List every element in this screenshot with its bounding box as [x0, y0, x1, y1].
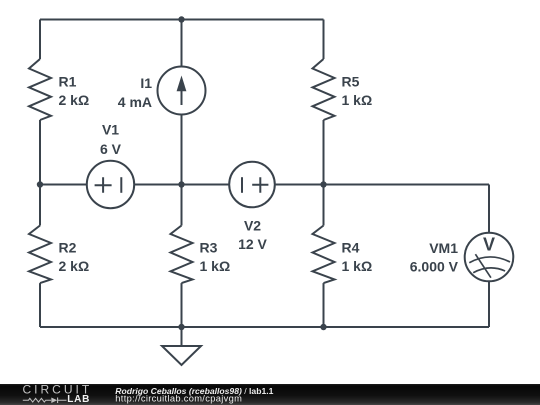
wire left rail upper stub [39, 20, 41, 60]
junction node bottom right [320, 324, 326, 330]
ground triangle [162, 346, 201, 365]
wire middle rail left of V1 [40, 184, 87, 186]
wire VM1 bottom stub [488, 281, 490, 327]
junction node middle center [178, 181, 184, 187]
svg-text:1 kΩ: 1 kΩ [200, 258, 231, 274]
junction node bottom center [178, 324, 184, 330]
svg-text:R1: R1 [59, 74, 77, 90]
voltage source V2 circle [229, 162, 275, 208]
resistor R1 [29, 59, 51, 120]
svg-text:V2: V2 [244, 218, 261, 234]
svg-text:6.000 V: 6.000 V [410, 259, 459, 275]
wire middle rail V1 to V2 [134, 184, 229, 186]
svg-text:R3: R3 [200, 239, 218, 255]
svg-text:1 kΩ: 1 kΩ [342, 92, 373, 108]
wire R5 bottom to middle rail [323, 120, 325, 185]
svg-text:LAB: LAB [67, 394, 90, 405]
voltage source V1 circle [87, 161, 134, 208]
ground stem [181, 327, 183, 346]
wire VM1 top stub [488, 185, 490, 233]
resistor R5 [313, 59, 335, 120]
svg-text:4 mA: 4 mA [118, 94, 152, 110]
V1 plus sign [95, 177, 112, 193]
wire bottom rail [40, 326, 489, 328]
svg-text:R2: R2 [59, 239, 77, 255]
I1 arrow [177, 76, 187, 106]
svg-text:6 V: 6 V [100, 141, 122, 157]
wire R3 bottom stub [181, 283, 183, 327]
wire R5 top stub [323, 20, 325, 60]
wire left rail lower stub [39, 283, 41, 327]
junction node top center [178, 16, 184, 22]
wire I1 top stub [181, 20, 183, 67]
V1 minus bar [120, 177, 122, 193]
svg-text:I1: I1 [140, 75, 152, 91]
svg-text:R5: R5 [342, 74, 360, 90]
svg-text:http://circuitlab.com/cpajvgm: http://circuitlab.com/cpajvgm [115, 394, 242, 404]
svg-text:V: V [483, 235, 495, 255]
wire R4 bottom stub [323, 283, 325, 327]
wire top rail [40, 19, 324, 21]
resistor R4 [313, 226, 335, 284]
resistor R3 [171, 226, 193, 284]
wire R4 top stub [323, 185, 325, 226]
junction node middle left [37, 181, 43, 187]
resistor R2 [29, 226, 51, 284]
footer bar [0, 384, 540, 405]
current source I1 circle [158, 67, 206, 115]
svg-text:V1: V1 [102, 122, 119, 138]
logo resistor zigzag [23, 398, 51, 402]
V2 minus bar [241, 177, 243, 193]
voltmeter VM1 circle [465, 233, 514, 282]
logo diode [51, 398, 57, 404]
svg-text:1 kΩ: 1 kΩ [342, 258, 373, 274]
VM1 meter needle and arcs [469, 254, 510, 278]
svg-text:12 V: 12 V [238, 236, 267, 252]
wire I1 to middle rail [181, 115, 183, 226]
svg-text:R4: R4 [342, 239, 360, 255]
junction node middle right [320, 181, 326, 187]
V2 plus sign [252, 177, 268, 193]
wire middle rail V2 to VM1 [275, 184, 489, 186]
wire left rail mid segment [39, 120, 41, 226]
svg-text:VM1: VM1 [429, 240, 458, 256]
svg-text:2 kΩ: 2 kΩ [59, 258, 90, 274]
svg-text:2 kΩ: 2 kΩ [59, 92, 90, 108]
